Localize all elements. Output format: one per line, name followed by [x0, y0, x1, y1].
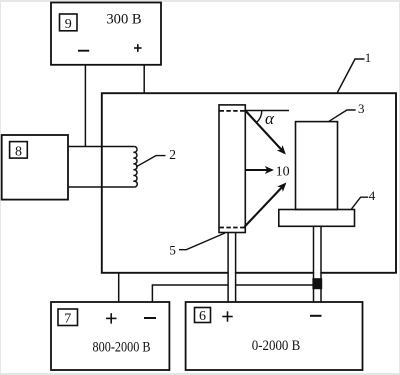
wire U9 plus to chamber top — [143, 65, 145, 93]
label 5 pointer — [179, 233, 225, 250]
beam arrow upper (angle alpha) — [245, 111, 284, 154]
wire U7 minus to junction node — [152, 284, 313, 286]
coil L2 scallops — [134, 147, 138, 187]
angle arc — [257, 111, 262, 123]
power supply U7 800-2000V box — [51, 302, 169, 370]
svg-text:9: 9 — [65, 17, 72, 32]
crossing gap of tube leads over chamber bottom — [229, 271, 235, 274]
crossing gap of tube leads over minus wire — [229, 284, 235, 287]
target block 3 — [296, 122, 338, 210]
svg-text:2: 2 — [169, 147, 176, 162]
svg-text:6: 6 — [199, 309, 206, 324]
label 1 pointer — [337, 59, 365, 93]
svg-text:8: 8 — [15, 144, 22, 159]
tube 5 lead left — [227, 233, 229, 303]
minus terminal of U9 — [78, 50, 89, 52]
label box 9 — [60, 14, 78, 31]
label box 6 — [195, 308, 211, 323]
minus terminal of U6 — [310, 315, 322, 317]
svg-text:300 В: 300 В — [106, 12, 142, 28]
crossing gap of pedestal leads over chamber bottom — [314, 271, 320, 274]
minus terminal of U7 — [144, 317, 156, 319]
wire U7 plus to chamber bottom — [118, 273, 120, 302]
label 3 pointer — [329, 110, 356, 121]
pedestal lead right — [320, 226, 322, 302]
junction square node — [312, 278, 322, 289]
label 2 pointer — [136, 156, 165, 167]
svg-text:1: 1 — [365, 51, 371, 65]
wire U9 minus to electromagnet yoke — [84, 65, 86, 147]
power supply U6 0-2000V box — [186, 302, 363, 370]
beam arrow middle — [245, 169, 272, 171]
tube 5 top dashed electrode — [220, 110, 245, 112]
deflection plates tube 5 — [219, 105, 245, 233]
svg-text:4: 4 — [369, 188, 376, 203]
label box 8 — [10, 142, 28, 159]
svg-text:800-2000 В: 800-2000 В — [93, 340, 151, 356]
plus terminal of U6 — [222, 311, 232, 321]
angle reference line — [245, 110, 289, 112]
plus terminal of U7 — [106, 313, 117, 323]
tube 5 bottom dashed electrode — [220, 227, 245, 229]
oscillator box U8 — [2, 135, 68, 200]
tube 5 lead right — [235, 233, 237, 303]
svg-text:3: 3 — [358, 101, 365, 116]
svg-text:0-2000 В: 0-2000 В — [252, 338, 301, 354]
power supply U9 300V box — [51, 3, 161, 65]
svg-text:5: 5 — [169, 242, 176, 257]
beam arrow lower — [244, 184, 285, 227]
plus terminal of U9 — [134, 44, 142, 52]
electromagnet yoke top edge — [68, 146, 135, 148]
pedestal 4 — [279, 210, 355, 227]
pedestal lead left — [313, 226, 315, 302]
svg-text:α: α — [265, 109, 275, 128]
svg-text:7: 7 — [64, 312, 71, 327]
vacuum chamber box 1 — [102, 93, 396, 273]
label 4 pointer — [352, 197, 369, 209]
electromagnet yoke bottom edge — [68, 186, 135, 188]
label box 7 — [58, 309, 78, 326]
svg-text:10: 10 — [276, 164, 290, 179]
wire U7 minus riser — [151, 285, 153, 302]
